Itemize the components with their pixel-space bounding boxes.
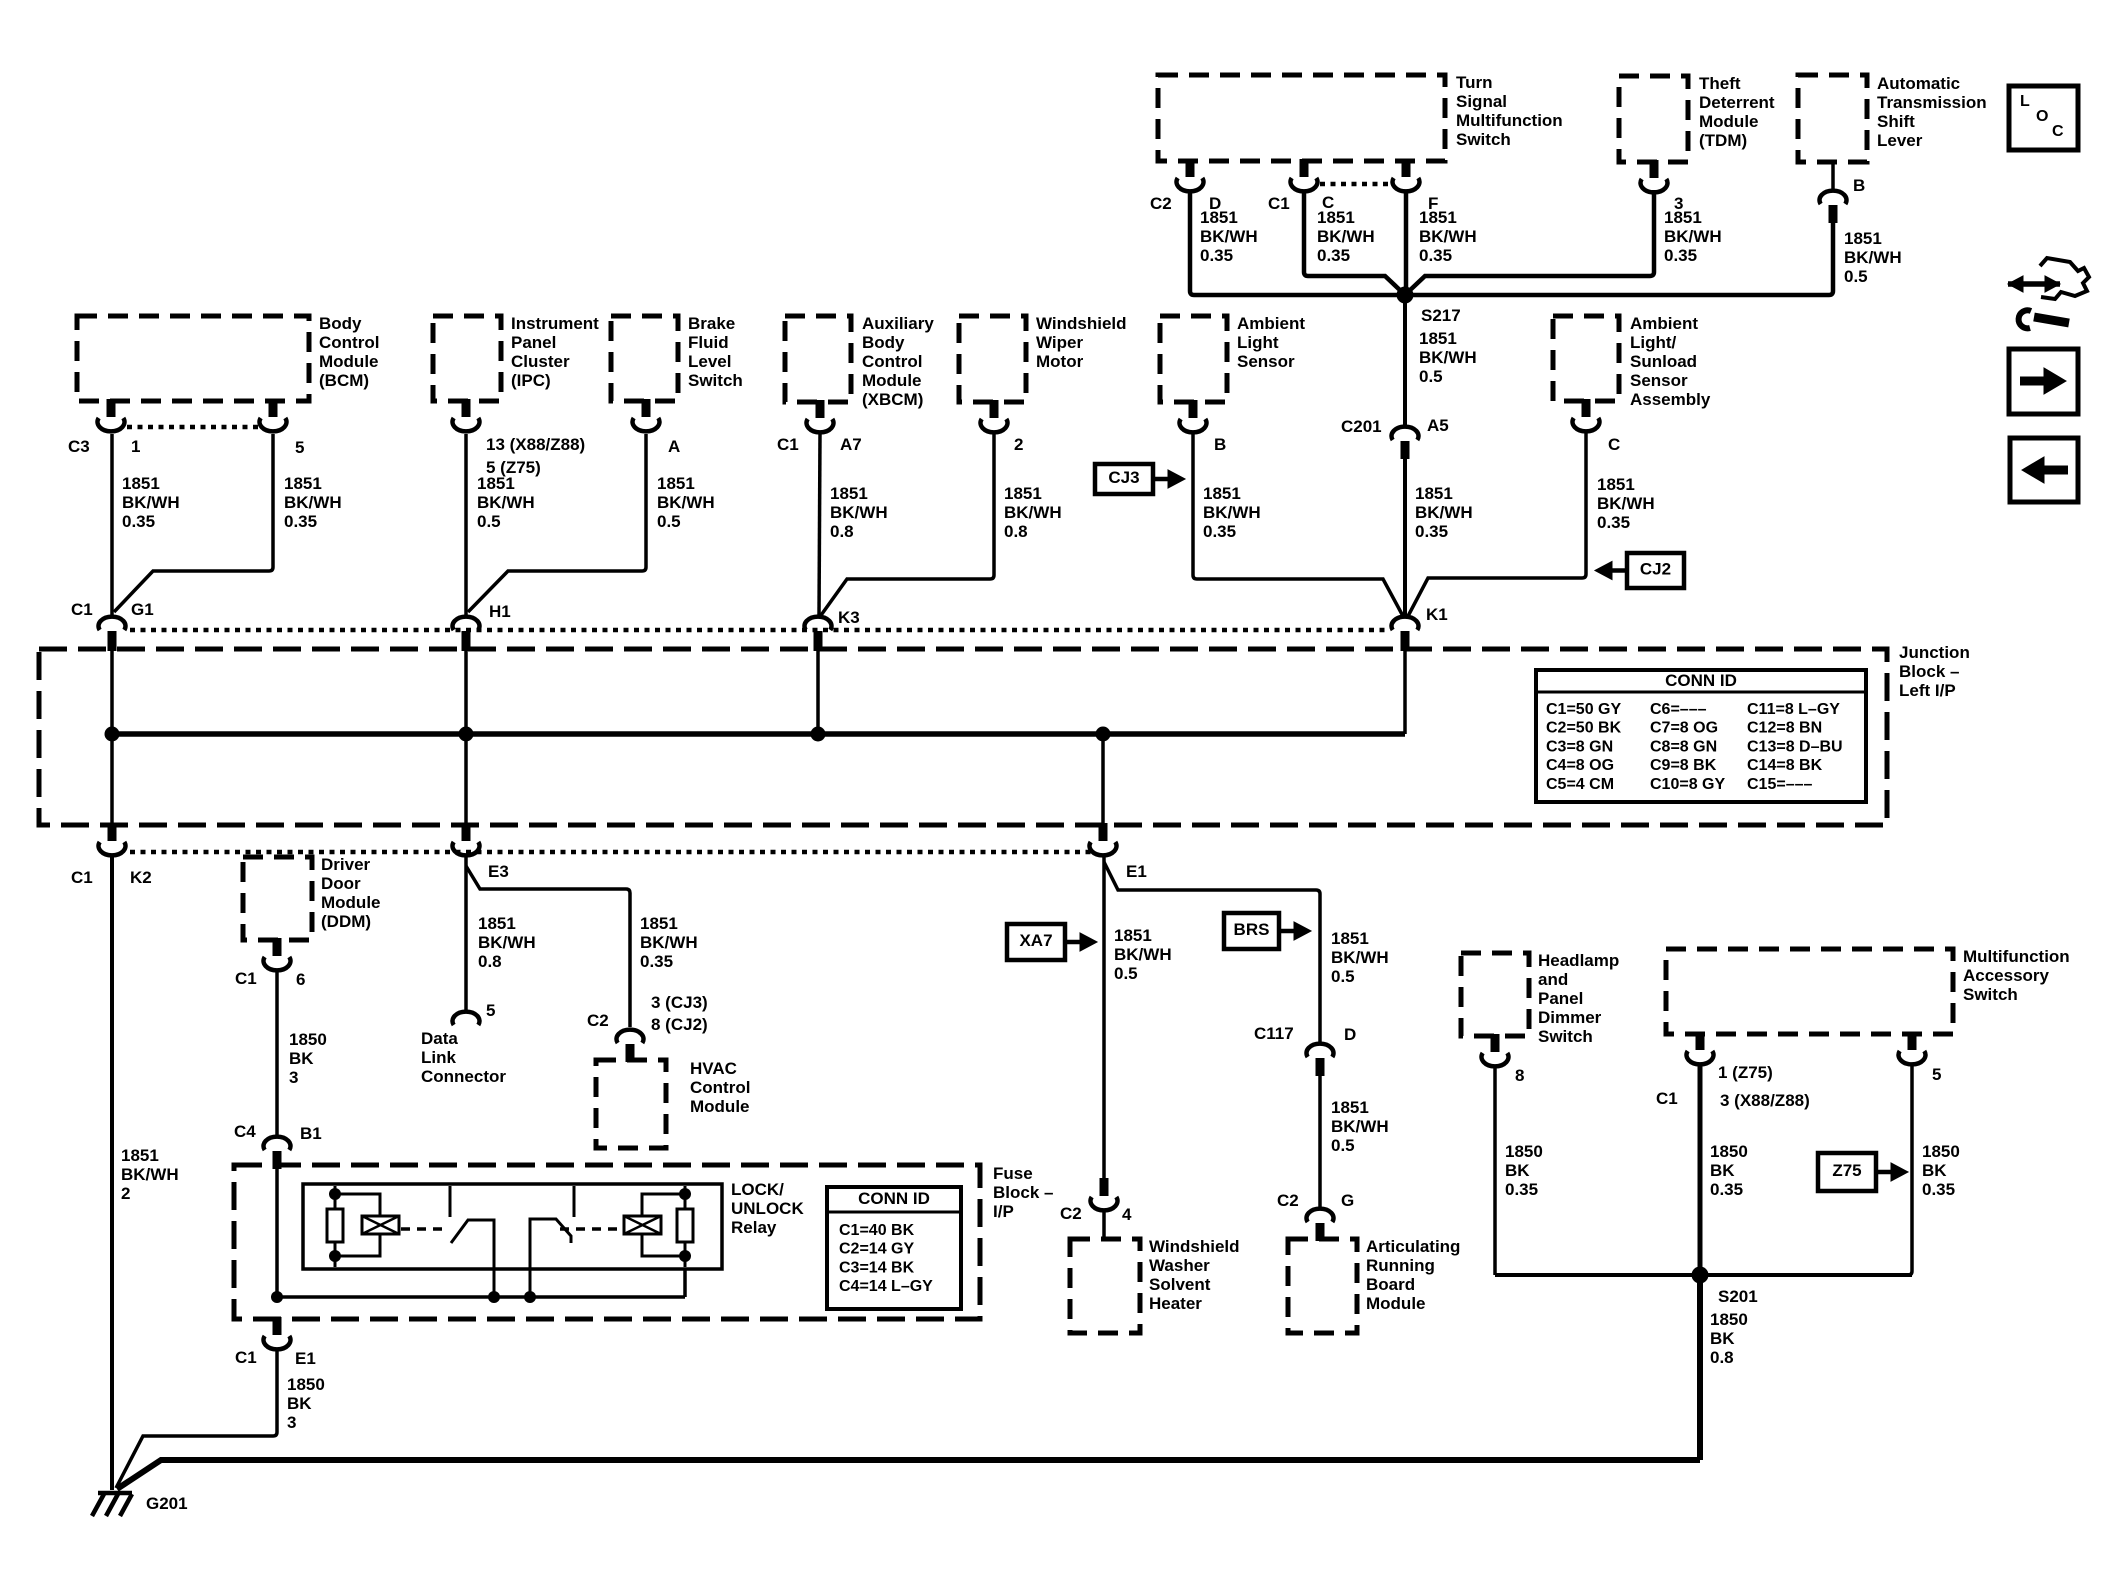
svg-text:1851: 1851 [1415,484,1453,503]
svg-text:1850: 1850 [287,1375,325,1394]
svg-text:C1: C1 [1268,194,1290,213]
svg-text:1850: 1850 [289,1030,327,1049]
svg-text:Deterrent: Deterrent [1699,93,1775,112]
svg-text:C3=14 BK: C3=14 BK [839,1259,915,1276]
svg-text:1851: 1851 [1419,329,1457,348]
svg-text:Fluid: Fluid [688,333,729,352]
svg-text:Turn: Turn [1456,73,1493,92]
svg-text:Articulating: Articulating [1366,1237,1460,1256]
svg-text:0.5: 0.5 [1844,267,1868,286]
svg-text:Driver: Driver [321,855,371,874]
svg-text:Relay: Relay [731,1218,777,1237]
svg-text:C117: C117 [1254,1024,1294,1043]
svg-text:0.35: 0.35 [1200,246,1233,265]
svg-text:0.5: 0.5 [1114,964,1138,983]
svg-text:A5: A5 [1427,416,1449,435]
svg-text:1851: 1851 [830,484,868,503]
svg-text:Motor: Motor [1036,352,1084,371]
svg-text:Control: Control [319,333,379,352]
svg-text:C2: C2 [1060,1204,1082,1223]
svg-text:Light/: Light/ [1630,333,1677,352]
svg-text:Sensor: Sensor [1630,371,1688,390]
svg-text:0.8: 0.8 [1004,522,1028,541]
svg-text:G1: G1 [131,600,154,619]
svg-text:5: 5 [1932,1065,1941,1084]
svg-text:1851: 1851 [1331,1098,1369,1117]
svg-text:Lever: Lever [1877,131,1923,150]
svg-text:BK/WH: BK/WH [1200,227,1258,246]
svg-text:1851: 1851 [1203,484,1241,503]
svg-text:2: 2 [121,1184,130,1203]
svg-text:BK/WH: BK/WH [121,1165,179,1184]
svg-text:0.35: 0.35 [1203,522,1236,541]
svg-text:(TDM): (TDM) [1699,131,1747,150]
svg-text:Running: Running [1366,1256,1435,1275]
svg-text:2: 2 [1014,435,1023,454]
svg-text:CJ2: CJ2 [1640,560,1671,579]
svg-text:Transmission: Transmission [1877,93,1987,112]
svg-text:Windshield: Windshield [1149,1237,1240,1256]
svg-text:Sensor: Sensor [1237,352,1295,371]
svg-text:BK: BK [1710,1329,1735,1348]
svg-text:L: L [2020,93,2030,110]
svg-text:Data: Data [421,1029,458,1048]
svg-text:K3: K3 [838,608,860,627]
svg-text:C1=50 GY: C1=50 GY [1546,701,1621,718]
svg-text:CONN ID: CONN ID [1665,671,1737,690]
svg-text:O: O [2036,108,2048,125]
svg-text:Sunload: Sunload [1630,352,1697,371]
svg-text:A: A [668,437,680,456]
svg-text:C1: C1 [71,600,93,619]
svg-text:0.35: 0.35 [284,512,317,531]
svg-text:1851: 1851 [284,474,322,493]
svg-text:Shift: Shift [1877,112,1915,131]
svg-text:13 (X88/Z88): 13 (X88/Z88) [486,435,585,454]
svg-text:0.35: 0.35 [1505,1180,1538,1199]
svg-text:Door: Door [321,874,361,893]
svg-text:Brake: Brake [688,314,735,333]
svg-text:3: 3 [289,1068,298,1087]
svg-text:A7: A7 [840,435,862,454]
svg-text:1851: 1851 [1844,229,1882,248]
svg-text:S201: S201 [1718,1287,1758,1306]
svg-text:0.35: 0.35 [1419,246,1452,265]
svg-text:BRS: BRS [1234,920,1270,939]
svg-text:BK/WH: BK/WH [1597,494,1655,513]
svg-text:BK: BK [1922,1161,1947,1180]
svg-text:Module: Module [690,1097,750,1116]
svg-text:0.5: 0.5 [1331,1136,1355,1155]
svg-text:C15=–––: C15=––– [1747,776,1812,793]
svg-text:Multifunction: Multifunction [1456,111,1563,130]
svg-text:6: 6 [296,970,305,989]
svg-text:CONN ID: CONN ID [858,1189,930,1208]
svg-text:BK/WH: BK/WH [478,933,536,952]
svg-text:Headlamp: Headlamp [1538,951,1619,970]
svg-text:C1: C1 [235,1348,257,1367]
svg-text:Windshield: Windshield [1036,314,1127,333]
svg-text:1851: 1851 [640,914,678,933]
svg-text:C12=8 BN: C12=8 BN [1747,720,1822,737]
svg-text:C4: C4 [234,1122,256,1141]
svg-text:Module: Module [862,371,922,390]
svg-text:0.5: 0.5 [657,512,681,531]
svg-text:3 (CJ3): 3 (CJ3) [651,993,708,1012]
svg-text:B: B [1853,176,1865,195]
svg-text:C2: C2 [587,1011,609,1030]
svg-text:Auxiliary: Auxiliary [862,314,934,333]
svg-text:BK/WH: BK/WH [1844,248,1902,267]
svg-text:0.8: 0.8 [478,952,502,971]
svg-text:UNLOCK: UNLOCK [731,1199,804,1218]
svg-text:BK/WH: BK/WH [1331,948,1389,967]
svg-text:BK/WH: BK/WH [1419,348,1477,367]
svg-text:BK/WH: BK/WH [1114,945,1172,964]
svg-text:Link: Link [421,1048,456,1067]
svg-text:C5=4 CM: C5=4 CM [1546,776,1614,793]
svg-text:Body: Body [862,333,905,352]
svg-text:Ambient: Ambient [1630,314,1698,333]
svg-text:Solvent: Solvent [1149,1275,1211,1294]
svg-text:Ambient: Ambient [1237,314,1305,333]
svg-text:(XBCM): (XBCM) [862,390,923,409]
svg-text:3 (X88/Z88): 3 (X88/Z88) [1720,1091,1810,1110]
svg-text:1851: 1851 [122,474,160,493]
svg-text:0.35: 0.35 [1597,513,1630,532]
svg-text:5: 5 [486,1001,495,1020]
svg-text:Automatic: Automatic [1877,74,1960,93]
svg-text:Module: Module [319,352,379,371]
svg-text:Instrument: Instrument [511,314,599,333]
svg-text:Fuse: Fuse [993,1164,1033,1183]
svg-text:1850: 1850 [1710,1310,1748,1329]
svg-text:BK/WH: BK/WH [122,493,180,512]
svg-text:1851: 1851 [1004,484,1042,503]
svg-text:Control: Control [690,1078,750,1097]
svg-text:Washer: Washer [1149,1256,1210,1275]
svg-text:BK/WH: BK/WH [1317,227,1375,246]
svg-text:0.35: 0.35 [640,952,673,971]
svg-text:Accessory: Accessory [1963,966,2050,985]
svg-text:BK/WH: BK/WH [1331,1117,1389,1136]
svg-text:Light: Light [1237,333,1279,352]
svg-text:Dimmer: Dimmer [1538,1008,1602,1027]
svg-text:and: and [1538,970,1568,989]
svg-text:BK/WH: BK/WH [830,503,888,522]
svg-text:BK/WH: BK/WH [1203,503,1261,522]
svg-text:C2: C2 [1150,194,1172,213]
svg-text:G201: G201 [146,1494,188,1513]
svg-text:LOCK/: LOCK/ [731,1180,784,1199]
svg-text:BK: BK [1710,1161,1735,1180]
svg-text:S217: S217 [1421,306,1461,325]
svg-text:C6=–––: C6=––– [1650,701,1707,718]
svg-text:K1: K1 [1426,605,1448,624]
svg-text:C: C [1608,435,1620,454]
svg-text:BK/WH: BK/WH [1004,503,1062,522]
svg-text:BK/WH: BK/WH [284,493,342,512]
svg-text:0.5: 0.5 [1419,367,1443,386]
svg-text:BK: BK [289,1049,314,1068]
svg-text:K2: K2 [130,868,152,887]
svg-text:C13=8 D–BU: C13=8 D–BU [1747,738,1843,755]
svg-text:Switch: Switch [688,371,743,390]
svg-text:HVAC: HVAC [690,1059,737,1078]
svg-text:E1: E1 [1126,862,1147,881]
svg-text:Block –: Block – [1899,662,1959,681]
svg-text:C1: C1 [235,969,257,988]
svg-text:1851: 1851 [1331,929,1369,948]
svg-text:0.35: 0.35 [1664,246,1697,265]
svg-text:Assembly: Assembly [1630,390,1711,409]
svg-text:Connector: Connector [421,1067,506,1086]
svg-text:Module: Module [1366,1294,1426,1313]
svg-text:BK/WH: BK/WH [1419,227,1477,246]
svg-text:0.35: 0.35 [1710,1180,1743,1199]
svg-text:B: B [1214,435,1226,454]
svg-text:Module: Module [1699,112,1759,131]
svg-text:C11=8 L–GY: C11=8 L–GY [1747,701,1840,718]
svg-text:Board: Board [1366,1275,1415,1294]
svg-text:E3: E3 [488,862,509,881]
svg-text:BK: BK [287,1394,312,1413]
svg-text:Module: Module [321,893,381,912]
svg-text:C9=8 BK: C9=8 BK [1650,757,1717,774]
svg-text:C2=50 BK: C2=50 BK [1546,720,1622,737]
svg-text:4: 4 [1122,1205,1132,1224]
svg-text:I/P: I/P [993,1202,1014,1221]
svg-text:0.35: 0.35 [1317,246,1350,265]
svg-text:1 (Z75): 1 (Z75) [1718,1063,1773,1082]
svg-text:Body: Body [319,314,362,333]
svg-text:E1: E1 [295,1349,316,1368]
svg-text:Control: Control [862,352,922,371]
svg-text:0.35: 0.35 [1922,1180,1955,1199]
svg-text:C1: C1 [71,868,93,887]
svg-text:B1: B1 [300,1124,322,1143]
svg-text:(BCM): (BCM) [319,371,369,390]
svg-text:CJ3: CJ3 [1108,468,1139,487]
svg-text:1851: 1851 [478,914,516,933]
svg-text:0.5: 0.5 [1331,967,1355,986]
svg-text:BK: BK [1505,1161,1530,1180]
svg-text:0.35: 0.35 [122,512,155,531]
svg-text:C14=8 BK: C14=8 BK [1747,757,1823,774]
svg-text:1851: 1851 [1317,208,1355,227]
svg-text:C1: C1 [777,435,799,454]
svg-text:Panel: Panel [1538,989,1583,1008]
svg-text:0.35: 0.35 [1415,522,1448,541]
svg-text:C3=8 GN: C3=8 GN [1546,738,1613,755]
svg-text:C1=40 BK: C1=40 BK [839,1222,915,1239]
svg-text:8: 8 [1515,1066,1524,1085]
svg-text:1851: 1851 [1200,208,1238,227]
svg-text:1851: 1851 [1664,208,1702,227]
svg-text:Multifunction: Multifunction [1963,947,2070,966]
svg-text:XA7: XA7 [1019,931,1052,950]
svg-text:5: 5 [295,438,304,457]
svg-text:G: G [1341,1191,1354,1210]
svg-text:(DDM): (DDM) [321,912,371,931]
svg-text:1851: 1851 [477,474,515,493]
svg-text:1851: 1851 [1114,926,1152,945]
svg-text:Left I/P: Left I/P [1899,681,1956,700]
svg-text:0.5: 0.5 [477,512,501,531]
svg-text:3: 3 [287,1413,296,1432]
svg-text:Signal: Signal [1456,92,1507,111]
svg-text:BK/WH: BK/WH [1664,227,1722,246]
svg-text:Z75: Z75 [1832,1161,1861,1180]
svg-text:1851: 1851 [1597,475,1635,494]
svg-text:BK/WH: BK/WH [477,493,535,512]
svg-text:BK/WH: BK/WH [657,493,715,512]
svg-text:Junction: Junction [1899,643,1970,662]
svg-text:(IPC): (IPC) [511,371,551,390]
svg-text:C4=14 L–GY: C4=14 L–GY [839,1278,933,1295]
svg-text:C10=8 GY: C10=8 GY [1650,776,1725,793]
svg-text:1851: 1851 [121,1146,159,1165]
svg-text:1851: 1851 [1419,208,1457,227]
svg-text:0.8: 0.8 [830,522,854,541]
svg-text:D: D [1344,1025,1356,1044]
svg-text:Level: Level [688,352,731,371]
svg-text:Switch: Switch [1456,130,1511,149]
svg-text:Panel: Panel [511,333,556,352]
svg-text:C1: C1 [1656,1089,1678,1108]
svg-text:C4=8 OG: C4=8 OG [1546,757,1614,774]
svg-text:Switch: Switch [1963,985,2018,1004]
svg-text:Heater: Heater [1149,1294,1202,1313]
svg-text:C3: C3 [68,437,90,456]
svg-text:Switch: Switch [1538,1027,1593,1046]
svg-text:Block –: Block – [993,1183,1053,1202]
svg-text:Theft: Theft [1699,74,1741,93]
svg-text:C8=8 GN: C8=8 GN [1650,738,1717,755]
svg-text:C2=14 GY: C2=14 GY [839,1241,914,1258]
svg-text:1850: 1850 [1505,1142,1543,1161]
svg-text:BK/WH: BK/WH [640,933,698,952]
svg-text:Wiper: Wiper [1036,333,1083,352]
svg-text:0.8: 0.8 [1710,1348,1734,1367]
svg-text:1851: 1851 [657,474,695,493]
svg-text:H1: H1 [489,602,511,621]
svg-text:C: C [2052,123,2064,140]
svg-text:C2: C2 [1277,1191,1299,1210]
svg-text:BK/WH: BK/WH [1415,503,1473,522]
svg-text:Cluster: Cluster [511,352,570,371]
svg-text:1850: 1850 [1710,1142,1748,1161]
svg-text:C201: C201 [1341,417,1382,436]
svg-text:1850: 1850 [1922,1142,1960,1161]
svg-text:C7=8 OG: C7=8 OG [1650,720,1718,737]
svg-text:8 (CJ2): 8 (CJ2) [651,1015,708,1034]
svg-text:1: 1 [131,437,140,456]
